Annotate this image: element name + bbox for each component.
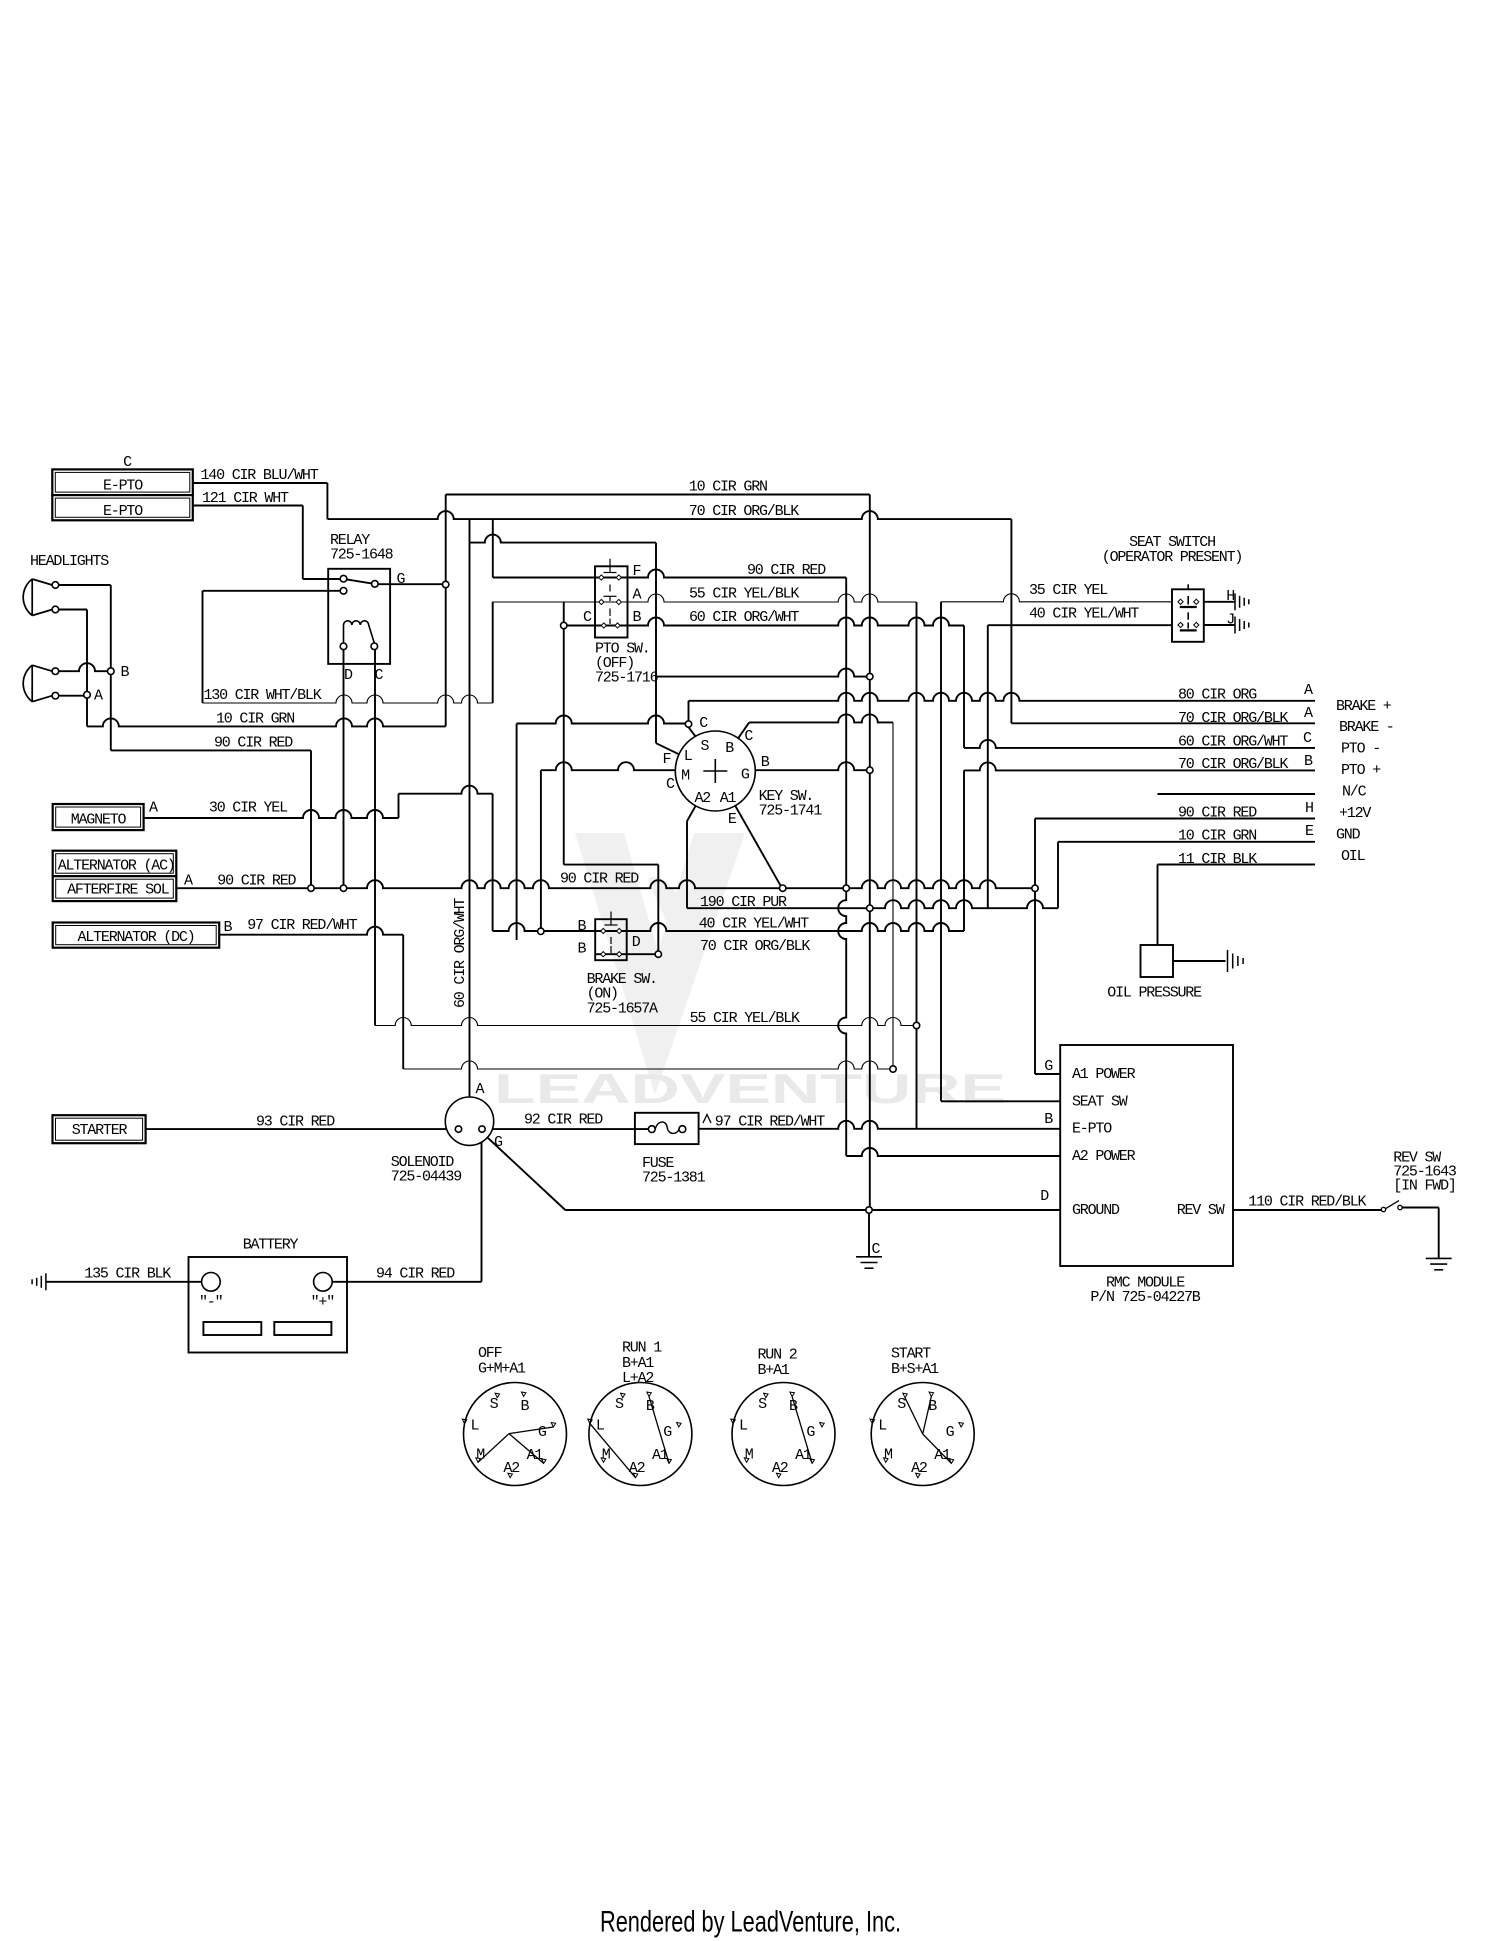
svg-text:F: F	[633, 563, 641, 580]
svg-text:L+A2: L+A2	[622, 1370, 653, 1387]
svg-text:G: G	[663, 1424, 672, 1441]
svg-text:10 CIR GRN: 10 CIR GRN	[1178, 827, 1256, 844]
svg-text:90 CIR RED: 90 CIR RED	[1178, 805, 1257, 822]
svg-text:80 CIR ORG: 80 CIR ORG	[1178, 687, 1257, 704]
svg-text:S: S	[615, 1396, 624, 1413]
svg-text:(OPERATOR PRESENT): (OPERATOR PRESENT)	[1102, 549, 1242, 566]
svg-text:LEADVENTURE: LEADVENTURE	[494, 1065, 1006, 1112]
svg-text:10 CIR GRN: 10 CIR GRN	[216, 711, 294, 728]
svg-text:B+A1: B+A1	[758, 1362, 790, 1379]
svg-text:140 CIR BLU/WHT: 140 CIR BLU/WHT	[201, 467, 319, 484]
svg-text:A2: A2	[503, 1460, 519, 1477]
svg-text:110 CIR RED/BLK: 110 CIR RED/BLK	[1248, 1193, 1366, 1210]
svg-text:A2: A2	[772, 1460, 788, 1477]
svg-text:55 CIR YEL/BLK: 55 CIR YEL/BLK	[690, 1010, 800, 1027]
svg-text:70 CIR ORG/BLK: 70 CIR ORG/BLK	[1178, 710, 1288, 727]
svg-text:B: B	[1304, 753, 1313, 770]
svg-text:A: A	[1304, 705, 1313, 722]
svg-text:A: A	[184, 872, 193, 889]
svg-text:P/N 725-04227B: P/N 725-04227B	[1090, 1289, 1200, 1306]
svg-text:S: S	[758, 1396, 767, 1413]
svg-text:92 CIR RED: 92 CIR RED	[524, 1112, 603, 1129]
svg-text:G: G	[397, 571, 406, 588]
svg-text:L: L	[470, 1417, 479, 1434]
svg-text:SEAT SW: SEAT SW	[1072, 1093, 1128, 1110]
svg-text:GROUND: GROUND	[1072, 1202, 1120, 1219]
svg-text:F: F	[662, 751, 670, 768]
svg-text:70 CIR ORG/BLK: 70 CIR ORG/BLK	[1178, 756, 1288, 773]
svg-text:OIL: OIL	[1341, 848, 1366, 865]
svg-text:E-PTO: E-PTO	[103, 503, 143, 520]
svg-text:C: C	[872, 1241, 881, 1258]
svg-text:C: C	[666, 776, 675, 793]
svg-text:BRAKE -: BRAKE -	[1339, 719, 1394, 736]
svg-text:H: H	[1226, 588, 1234, 605]
svg-text:M: M	[602, 1446, 611, 1463]
svg-text:A: A	[633, 587, 642, 604]
svg-text:A2 POWER: A2 POWER	[1072, 1148, 1136, 1165]
svg-text:G: G	[946, 1424, 955, 1441]
svg-text:B: B	[224, 919, 233, 936]
svg-text:H: H	[1305, 800, 1313, 817]
svg-text:A1 POWER: A1 POWER	[1072, 1066, 1136, 1083]
svg-text:A2: A2	[694, 790, 710, 807]
svg-text:90 CIR RED: 90 CIR RED	[560, 871, 639, 888]
svg-text:30 CIR YEL: 30 CIR YEL	[209, 800, 288, 817]
svg-text:94 CIR RED: 94 CIR RED	[376, 1266, 455, 1283]
svg-text:A: A	[94, 688, 103, 705]
svg-text:N/C: N/C	[1342, 784, 1367, 801]
svg-text:725-1741: 725-1741	[759, 803, 823, 820]
svg-text:Rendered by LeadVenture, Inc.: Rendered by LeadVenture, Inc.	[600, 1906, 901, 1939]
svg-text:97 CIR RED/WHT: 97 CIR RED/WHT	[247, 917, 357, 934]
svg-text:"-": "-"	[199, 1294, 222, 1311]
svg-text:C: C	[744, 728, 753, 745]
svg-text:G: G	[494, 1134, 503, 1151]
svg-text:S: S	[490, 1396, 499, 1413]
svg-text:D: D	[1040, 1188, 1049, 1205]
svg-text:190 CIR PUR: 190 CIR PUR	[700, 894, 787, 911]
svg-text:B: B	[577, 941, 586, 958]
svg-text:E-PTO: E-PTO	[1072, 1121, 1112, 1138]
svg-text:A2: A2	[911, 1460, 927, 1477]
svg-text:B+S+A1: B+S+A1	[891, 1361, 939, 1378]
svg-text:MAGNETO: MAGNETO	[71, 812, 127, 829]
svg-text:725-1381: 725-1381	[642, 1170, 706, 1187]
svg-text:97 CIR RED/WHT: 97 CIR RED/WHT	[715, 1114, 825, 1131]
svg-text:A1: A1	[720, 790, 737, 807]
svg-text:60 CIR ORG/WHT: 60 CIR ORG/WHT	[689, 609, 799, 626]
svg-text:10 CIR GRN: 10 CIR GRN	[689, 479, 767, 496]
svg-text:90 CIR RED: 90 CIR RED	[747, 562, 826, 579]
svg-text:130 CIR WHT/BLK: 130 CIR WHT/BLK	[203, 687, 321, 704]
svg-text:G: G	[1044, 1058, 1053, 1075]
svg-text:70 CIR ORG/BLK: 70 CIR ORG/BLK	[700, 938, 810, 955]
svg-text:STARTER: STARTER	[72, 1122, 128, 1139]
svg-text:C: C	[1303, 730, 1312, 747]
svg-text:G: G	[806, 1424, 815, 1441]
svg-text:L: L	[739, 1417, 748, 1434]
svg-text:REV SW: REV SW	[1177, 1202, 1225, 1219]
svg-text:S: S	[700, 738, 709, 755]
svg-text:C: C	[583, 609, 592, 626]
svg-text:725-1648: 725-1648	[330, 547, 394, 564]
svg-text:B: B	[725, 740, 734, 757]
svg-text:OIL PRESSURE: OIL PRESSURE	[1107, 985, 1202, 1002]
svg-text:B: B	[121, 664, 130, 681]
svg-text:BATTERY: BATTERY	[243, 1237, 299, 1254]
svg-text:D: D	[344, 667, 353, 684]
svg-text:G+M+A1: G+M+A1	[478, 1360, 526, 1377]
svg-text:35 CIR YEL: 35 CIR YEL	[1029, 582, 1108, 599]
svg-text:D: D	[632, 934, 641, 951]
svg-text:11 CIR BLK: 11 CIR BLK	[1178, 851, 1257, 868]
svg-text:PTO +: PTO +	[1341, 762, 1381, 779]
svg-text:AFTERFIRE SOL: AFTERFIRE SOL	[67, 882, 170, 899]
svg-text:55 CIR YEL/BLK: 55 CIR YEL/BLK	[689, 586, 799, 603]
svg-text:ALTERNATOR (DC): ALTERNATOR (DC)	[77, 929, 194, 946]
svg-text:60 CIR ORG/WHT: 60 CIR ORG/WHT	[452, 898, 469, 1008]
svg-text:A1: A1	[934, 1447, 951, 1464]
svg-text:L: L	[684, 748, 693, 765]
svg-text:B: B	[577, 918, 586, 935]
svg-text:B: B	[1044, 1111, 1053, 1128]
svg-text:B: B	[520, 1398, 529, 1415]
svg-text:G: G	[741, 766, 750, 783]
svg-text:[IN FWD]: [IN FWD]	[1393, 1178, 1455, 1195]
svg-text:M: M	[476, 1446, 485, 1463]
svg-text:B: B	[761, 754, 770, 771]
svg-text:90 CIR RED: 90 CIR RED	[217, 872, 296, 889]
svg-text:HEADLIGHTS: HEADLIGHTS	[30, 553, 109, 570]
svg-text:70 CIR ORG/BLK: 70 CIR ORG/BLK	[689, 503, 799, 520]
svg-text:PTO -: PTO -	[1341, 741, 1380, 758]
svg-text:725-04439: 725-04439	[391, 1169, 461, 1186]
svg-text:E-PTO: E-PTO	[103, 477, 143, 494]
svg-text:L: L	[878, 1417, 887, 1434]
svg-text:E: E	[728, 811, 737, 828]
svg-text:725-1716: 725-1716	[595, 670, 659, 687]
svg-text:90 CIR RED: 90 CIR RED	[214, 735, 293, 752]
svg-text:GND: GND	[1336, 827, 1361, 844]
svg-text:+12V: +12V	[1339, 805, 1371, 822]
svg-text:BRAKE +: BRAKE +	[1336, 698, 1392, 715]
svg-text:E: E	[1305, 823, 1314, 840]
svg-text:G: G	[538, 1424, 547, 1441]
svg-text:40 CIR YEL/WHT: 40 CIR YEL/WHT	[699, 916, 809, 933]
svg-text:B: B	[633, 609, 642, 626]
svg-text:135 CIR BLK: 135 CIR BLK	[84, 1266, 171, 1283]
svg-text:40 CIR YEL/WHT: 40 CIR YEL/WHT	[1029, 606, 1139, 623]
svg-text:C: C	[375, 667, 384, 684]
svg-text:ALTERNATOR (AC): ALTERNATOR (AC)	[58, 857, 175, 874]
svg-text:M: M	[681, 768, 690, 785]
svg-text:"+": "+"	[311, 1294, 334, 1311]
svg-text:725-1657A: 725-1657A	[587, 1000, 658, 1017]
svg-text:C: C	[123, 454, 132, 471]
svg-text:A2: A2	[629, 1460, 645, 1477]
svg-text:121 CIR WHT: 121 CIR WHT	[202, 490, 289, 507]
svg-text:M: M	[884, 1446, 893, 1463]
svg-text:A: A	[1304, 682, 1313, 699]
svg-text:93 CIR RED: 93 CIR RED	[256, 1114, 335, 1131]
svg-text:A: A	[476, 1081, 485, 1098]
svg-text:A: A	[149, 800, 158, 817]
svg-text:M: M	[745, 1446, 754, 1463]
svg-text:J: J	[1226, 611, 1234, 628]
svg-text:C: C	[699, 715, 708, 732]
svg-text:60 CIR ORG/WHT: 60 CIR ORG/WHT	[1178, 733, 1288, 750]
